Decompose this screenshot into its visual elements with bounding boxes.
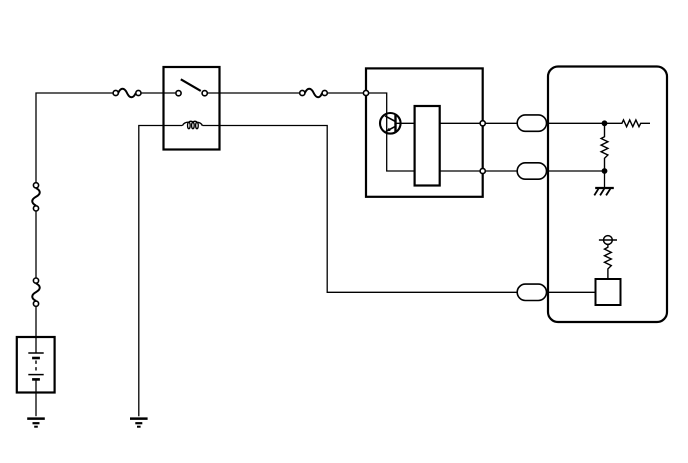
IC U1 box: [415, 106, 440, 186]
connector oval pin 2: [517, 163, 546, 179]
wire F1 to relay contact: [141, 92, 175, 94]
fuse F4 (vertical): [32, 278, 40, 306]
relay switch contact left: [176, 91, 181, 96]
wire node to connector oval top: [486, 122, 518, 124]
resistor R2 (vertical): [601, 123, 608, 171]
wire IC to output node top: [440, 122, 480, 124]
relay K1 box: [164, 67, 220, 150]
ECU box: [548, 67, 667, 323]
wire ECU second line to junction: [548, 170, 605, 172]
node output terminal top: [480, 121, 485, 126]
wire battery to ground: [35, 393, 37, 417]
battery BAT box: [17, 337, 55, 393]
wire junction to ECU ground: [604, 171, 606, 188]
wire relay output to sensor connector: right of coil, long run: [220, 126, 518, 293]
wire relay box left to coil: [164, 125, 183, 127]
wire node to transistor collector/emitter line: [369, 93, 415, 171]
wire coil to relay box right: [203, 125, 220, 127]
wire ECU top line to junction: [548, 122, 605, 124]
wire transistor base to IC: [396, 122, 415, 124]
wire battery feed: left vertical + top bus to fuse F1: [36, 93, 113, 182]
ground G3 (ECU internal, chassis style): [594, 188, 614, 195]
ground G2 (relay coil): [130, 419, 148, 427]
node junction J1: [602, 120, 608, 126]
fuse F1: [113, 89, 141, 97]
wire coil return: relay to ground: [139, 126, 164, 417]
wire ECU third line to sensor box: [548, 291, 596, 293]
wire between fuses: [35, 211, 37, 277]
wire IC to output node bottom: [440, 170, 480, 172]
fuse F2: [300, 89, 328, 97]
node input terminal on module edge: [363, 90, 368, 95]
resistor R1 (pull-up, horizontal): [605, 120, 651, 127]
sensor terminal T1: [599, 236, 617, 245]
connector oval pin 3: [517, 284, 546, 300]
sensor box S1: [596, 279, 621, 305]
transistor Q1: [380, 113, 401, 134]
wire node to connector oval bottom: [486, 170, 518, 172]
wire F2 to module node: [328, 92, 364, 94]
battery cells: [28, 337, 43, 393]
node output terminal bottom: [480, 168, 485, 173]
node junction J2: [602, 168, 608, 174]
relay coil L1: [182, 121, 202, 128]
relay switch contact right: [202, 91, 207, 96]
connector oval pin 1: [517, 115, 546, 131]
resistor R3 (sensor element, vertical): [605, 244, 612, 279]
ground G1 (battery): [27, 419, 45, 427]
wire fuse F4 to battery: [35, 307, 37, 337]
relay switch blade: [181, 79, 201, 91]
module M1 box: [366, 68, 483, 196]
fuse F3 (vertical): [32, 183, 40, 211]
wire relay contact to fuse F2: [208, 92, 300, 94]
